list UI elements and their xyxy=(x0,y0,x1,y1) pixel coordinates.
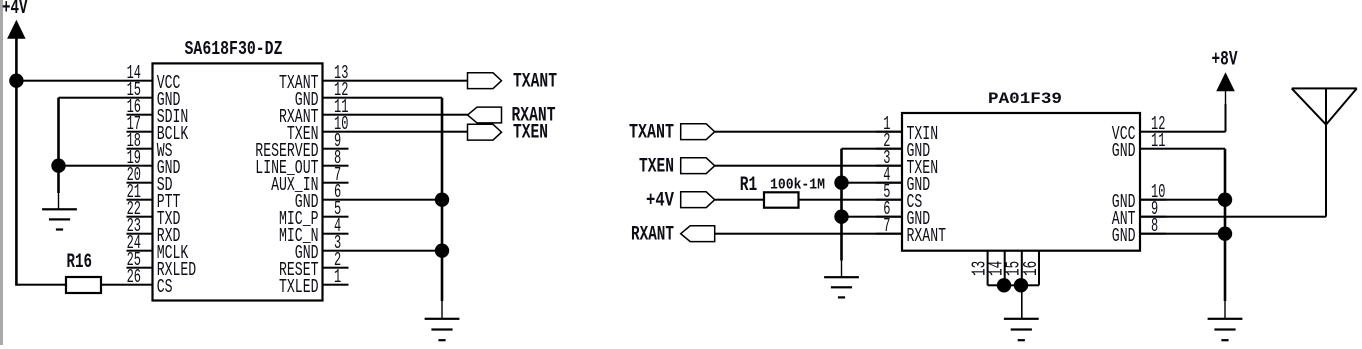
resistor R16 xyxy=(66,251,101,293)
pin 21 (PTT) U1 left xyxy=(127,181,181,213)
wire +4V port to R1 xyxy=(715,199,764,201)
pin 1 (TXLED) U1 right xyxy=(279,266,349,298)
ground (U2 right GND bus) xyxy=(1208,318,1243,342)
IC U2 PA01F39 xyxy=(902,90,1140,251)
wire TXANT port to pin1 xyxy=(715,131,902,133)
port TXANT (right sheet) xyxy=(629,122,715,145)
pin 17 (BCLK) U1 left xyxy=(127,113,189,145)
wire pin19 GND horizontal xyxy=(59,165,153,167)
wire GND vertical xyxy=(57,98,60,210)
svg-text:26: 26 xyxy=(127,266,141,288)
junction pin14 bottom xyxy=(997,278,1011,292)
junction GND pin19 xyxy=(51,159,65,173)
svg-text:PA01F39: PA01F39 xyxy=(988,90,1062,108)
pin 18 (WS) U1 left xyxy=(127,130,173,162)
power symbol +8V xyxy=(1212,49,1238,92)
wire pin3 GND to bus xyxy=(323,250,443,252)
wire pin6 GND to bus xyxy=(842,216,903,218)
ground (U1 right GND bus) xyxy=(425,318,460,342)
wire GND bus vertical (U1 right) xyxy=(441,98,444,319)
wire +4V rail to R16 xyxy=(16,284,66,286)
pin 12 (VCC) U2 right xyxy=(1112,113,1166,145)
pin 11 (GND) U2 right xyxy=(1112,130,1166,162)
svg-text:100k-1M: 100k-1M xyxy=(770,177,825,194)
wire pin9 ANT to antenna xyxy=(1140,125,1327,218)
junction GND pin6 U2 xyxy=(834,210,848,224)
svg-text:R16: R16 xyxy=(67,251,93,274)
pin 14 U2 bottom xyxy=(986,251,1008,286)
pin 16 (SDIN) U1 left xyxy=(127,96,189,128)
junction GND pin10 xyxy=(1218,193,1232,207)
ground (left U1 GND) xyxy=(42,208,77,230)
port +4V (right sheet) xyxy=(646,190,715,213)
svg-text:+4V: +4V xyxy=(646,190,674,213)
svg-text:TXANT: TXANT xyxy=(513,71,557,94)
pin 11 (RXANT) U1 right xyxy=(279,96,348,128)
pin 12 (GND) U1 right xyxy=(295,79,349,111)
pin 16 U2 bottom xyxy=(1020,251,1042,286)
port TXANT (left sheet) xyxy=(468,71,558,94)
svg-text:RXANT: RXANT xyxy=(631,224,674,247)
pin 14 (VCC) U1 left xyxy=(127,62,181,94)
pin 10 (GND) U2 right xyxy=(1112,181,1166,213)
port RXANT (right sheet) xyxy=(631,224,715,247)
svg-text:SA618F30-DZ: SA618F30-DZ xyxy=(185,38,283,60)
pin 2 (RESET) U1 right xyxy=(279,249,349,281)
wire pin10 GND to bus xyxy=(1140,199,1225,201)
svg-text:TXANT: TXANT xyxy=(629,122,674,145)
junction GND pin6 xyxy=(435,193,449,207)
pin 22 (TXD) U1 left xyxy=(127,198,181,230)
pin 13 U2 bottom xyxy=(968,251,990,286)
antenna xyxy=(1292,87,1357,124)
svg-text:11: 11 xyxy=(1151,130,1165,152)
wire R16 to pin 26 CS xyxy=(101,284,153,286)
svg-text:+8V: +8V xyxy=(1212,49,1238,72)
port TXEN (left sheet) xyxy=(468,122,549,145)
svg-text:1: 1 xyxy=(334,266,341,288)
pin 24 (MCLK) U1 left xyxy=(127,232,189,264)
pin 9 (ANT) U2 right xyxy=(1112,198,1166,230)
wire pin15 GND horizontal xyxy=(59,97,153,99)
pin 7 (RXANT) U2 left xyxy=(876,215,946,247)
wire pin11 GND to right bus xyxy=(1166,148,1225,150)
svg-text:R1: R1 xyxy=(740,174,758,197)
svg-text:GND: GND xyxy=(1112,140,1136,162)
pin 4 (MIC_N) U1 right xyxy=(279,215,349,247)
wire bottom pins bus xyxy=(988,284,1039,286)
junction pin15 bottom xyxy=(1014,278,1028,292)
junction GND pin8 xyxy=(1218,227,1232,241)
wire VCC net to pin 14 xyxy=(16,80,152,82)
wire pin10 to TXEN port xyxy=(323,131,468,133)
junction GND pin4 xyxy=(834,176,848,190)
pin 25 (RXLED) U1 left xyxy=(127,249,197,281)
svg-text:+4V: +4V xyxy=(2,0,28,20)
svg-text:16: 16 xyxy=(1020,261,1042,276)
wire GND bus vertical (U2 left) xyxy=(840,149,843,278)
IC U1 SA618F30-DZ xyxy=(153,38,323,301)
pin 26 (CS) U1 left xyxy=(127,266,173,298)
label R1 value 100k-1M xyxy=(770,177,825,194)
wire +4V rail vertical xyxy=(15,38,18,285)
svg-text:TXEN: TXEN xyxy=(513,122,548,145)
pin 10 (TXEN) U1 right xyxy=(287,113,349,145)
wire R1 to pin5 CS xyxy=(799,199,903,201)
wire bottom bus to ground xyxy=(1021,285,1023,319)
svg-text:TXEN: TXEN xyxy=(639,156,674,179)
pin 8 (GND) U2 right xyxy=(1112,215,1166,247)
pin 4 (GND) U2 left xyxy=(876,164,930,196)
wire pin2 GND to bus xyxy=(842,148,903,150)
pin 6 (GND) U1 right xyxy=(295,181,341,213)
port TXEN (right sheet) xyxy=(639,156,715,179)
resistor R1 xyxy=(740,174,799,208)
pin 5 (MIC_P) U1 right xyxy=(279,198,349,230)
junction GND pin3 xyxy=(435,244,449,258)
pin 5 (CS) U2 left xyxy=(876,181,922,213)
pin 23 (RXD) U1 left xyxy=(127,215,181,247)
pin 3 (GND) U1 right xyxy=(295,232,341,264)
pin 1 (TXIN) U2 left xyxy=(876,113,938,145)
pin 19 (GND) U1 left xyxy=(127,147,181,179)
wire pin6 GND to bus xyxy=(323,199,443,201)
pin 7 (AUX_IN) U1 right xyxy=(271,164,348,196)
ground (U2 left GND bus) xyxy=(824,276,859,298)
svg-text:TXLED: TXLED xyxy=(279,276,319,298)
pin 20 (SD) U1 left xyxy=(127,164,173,196)
pin 6 (GND) U2 left xyxy=(876,198,930,230)
pin 8 (LINE_OUT) U1 right xyxy=(255,147,348,179)
pin 2 (GND) U2 left xyxy=(876,130,930,162)
svg-text:CS: CS xyxy=(157,276,173,298)
wire pin12 GND to bus xyxy=(323,97,443,99)
wire pin8 GND to bus xyxy=(1140,233,1225,235)
wire GND bus vertical (U2 right) xyxy=(1224,149,1227,319)
pin 15 U2 bottom xyxy=(1003,251,1025,286)
wire pin4 GND to bus xyxy=(842,182,903,184)
pin 3 (TXEN) U2 left xyxy=(876,147,938,179)
pin 9 (RESERVED) U1 right xyxy=(255,130,348,162)
wire pin11 to RXANT port xyxy=(323,114,469,116)
pin 15 (GND) U1 left xyxy=(127,79,181,111)
power symbol +4V xyxy=(2,0,28,39)
pin 13 (TXANT) U1 right xyxy=(279,62,348,94)
svg-text:GND: GND xyxy=(1112,225,1136,247)
wire TXEN port to pin3 xyxy=(715,165,902,167)
wire +8V to pin12 VCC xyxy=(1166,91,1227,133)
port RXANT (left sheet) xyxy=(468,105,556,128)
wire RXANT port to pin7 xyxy=(715,233,902,235)
junction +4V / VCC xyxy=(9,74,23,88)
svg-text:RXANT: RXANT xyxy=(907,225,947,247)
ground (U2 bottom pins) xyxy=(1004,318,1039,342)
wire pin13 to TXANT port xyxy=(323,80,468,82)
